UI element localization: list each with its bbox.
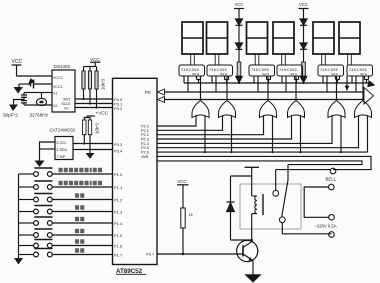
U1 left pin labels xyxy=(114,97,123,258)
svg-text:10k*2: 10k*2 xyxy=(95,122,100,134)
terminal bell upper xyxy=(326,168,337,181)
svg-text:P1.1: P1.1 xyxy=(114,185,123,190)
wire bell to mains series link xyxy=(304,187,328,217)
wire eeprom SCL to MCU P3.3 xyxy=(73,143,113,145)
svg-text:7 WP: 7 WP xyxy=(57,155,66,159)
microcontroller U1 AT89C52 xyxy=(113,78,158,275)
pushbutton S4 增加 xyxy=(19,206,113,214)
wire P3.5 line wrap to relay contact xyxy=(157,161,362,165)
terminal mains lower xyxy=(329,232,335,238)
svg-text:SEG: SEG xyxy=(290,72,298,76)
transistor Q1 NPN driver xyxy=(237,240,258,262)
svg-text:6 SCL: 6 SCL xyxy=(57,141,67,145)
svg-text:X1: X1 xyxy=(53,92,57,96)
label button 增加 xyxy=(75,205,84,209)
capacitor C1 load cap xyxy=(21,93,52,106)
svg-text:P0: P0 xyxy=(145,90,151,95)
wire driver U5 pin stubs xyxy=(282,76,299,92)
colon LED diode D4 xyxy=(300,43,307,62)
wire display DS4 pin stub xyxy=(282,54,286,65)
wire eeprom left pins to ground rail xyxy=(40,142,56,161)
svg-text:SEG: SEG xyxy=(220,72,228,76)
or-gate U8A digit select xyxy=(192,76,209,121)
wire DS1302 signal IO xyxy=(75,107,113,109)
svg-text:VCC: VCC xyxy=(12,59,23,65)
wire DS1302 signal RST xyxy=(75,98,113,100)
ground battery negative xyxy=(14,84,24,94)
svg-text:/RST: /RST xyxy=(63,98,71,102)
svg-text:I/O: I/O xyxy=(64,106,69,110)
svg-text:P1.4: P1.4 xyxy=(114,221,123,226)
display driver U2 74HC595 xyxy=(179,65,205,76)
svg-text:P3.4: P3.4 xyxy=(114,149,123,154)
VCC symbol relay coil supply xyxy=(245,167,260,196)
wire P2.0 digit select line xyxy=(157,121,196,127)
relay K1 contact common xyxy=(273,170,279,197)
resistor colon limiting R1 xyxy=(237,62,241,76)
or-gate U8C digit select xyxy=(260,76,277,121)
relay K1 coil xyxy=(252,194,263,240)
label button 暂停 xyxy=(75,239,84,243)
resistor R4 pull-up 10k xyxy=(88,67,91,105)
pushbutton S5 减小 xyxy=(19,217,113,225)
display driver U6 74HC595 xyxy=(318,65,344,76)
VCC symbol colon column 2 xyxy=(299,2,309,19)
terminal mains upper xyxy=(315,215,337,229)
VCC symbol base pull-up xyxy=(177,179,189,208)
RTC U9 DS1302 xyxy=(52,64,75,112)
label 10k*3 xyxy=(101,78,106,90)
wire chip6 stub arrow to bus xyxy=(345,76,350,91)
wire button common rail xyxy=(18,174,20,258)
svg-text:VCC1: VCC1 xyxy=(53,85,63,89)
ground crystal caps xyxy=(9,105,18,112)
wire driver U3 pin stubs xyxy=(212,76,229,92)
label button 闹钟设置/取消 xyxy=(59,181,103,185)
wire display DS5 pin stub xyxy=(322,54,326,65)
wire eeprom SDA to MCU P3.4 xyxy=(73,149,113,151)
display driver U3 74HC595 xyxy=(207,65,233,76)
svg-text:SEG: SEG xyxy=(360,72,368,76)
capacitor C2 load cap xyxy=(3,100,27,118)
wire P2.3 digit select line xyxy=(157,121,292,140)
svg-text:P1.0: P1.0 xyxy=(114,172,123,177)
svg-text:VCC2: VCC2 xyxy=(53,76,63,80)
seven-segment display DS5 xyxy=(313,22,334,54)
svg-text:SEG: SEG xyxy=(262,72,270,76)
resistor R6 I2C pull-up 10k xyxy=(83,120,86,145)
wire VCC to VCC2 pin xyxy=(17,75,53,77)
svg-text:P1.2: P1.2 xyxy=(114,198,123,203)
or-gate U8D digit select xyxy=(288,76,305,121)
crystal Y1 32768Hz xyxy=(30,93,53,118)
or-gate U8F digit select xyxy=(355,76,372,121)
label button 确定 xyxy=(75,248,84,252)
pushbutton S1 时间设置/确认 xyxy=(19,168,113,176)
pushbutton S2 闹钟设置/取消 xyxy=(19,181,113,189)
pushbutton S3 左移 xyxy=(19,194,113,202)
or-gate U8B digit select xyxy=(219,76,236,121)
resistor R8 base pull-up 1k xyxy=(181,208,194,255)
arrow to strobe rail from colon column 2 xyxy=(300,77,306,83)
label button 右移 xyxy=(75,229,84,233)
wire P2.5 digit select line xyxy=(157,121,359,148)
colon LED diode D1 xyxy=(236,19,243,43)
wire strobe rail xyxy=(184,81,374,87)
resistor R5 pull-up 10k xyxy=(95,67,98,109)
VCC symbol colon column 1 xyxy=(234,2,244,19)
wire display DS6 pin stub xyxy=(348,54,352,65)
svg-text:/WR: /WR xyxy=(141,155,149,159)
label button 减小 xyxy=(75,217,84,221)
wire driver U6 pin stubs xyxy=(323,76,340,92)
svg-text:P3.3: P3.3 xyxy=(114,142,123,147)
display driver U4 74HC595 xyxy=(249,65,275,76)
ground transistor emitter xyxy=(244,262,261,283)
seven-segment display DS2 xyxy=(207,22,228,54)
or-gate U8E digit select xyxy=(328,76,345,121)
svg-text:~220V 0.5A: ~220V 0.5A xyxy=(315,224,337,229)
battery B1 backup cell xyxy=(19,78,52,88)
svg-text:SEG: SEG xyxy=(331,72,339,76)
node P0 bus to displays xyxy=(158,88,374,105)
svg-text:P1.6: P1.6 xyxy=(114,244,123,249)
wire driver U7 pin stubs xyxy=(352,76,369,92)
svg-text:P1.3: P1.3 xyxy=(114,210,123,215)
display driver U7 74HC595 xyxy=(347,65,373,76)
svg-text:P3.7: P3.7 xyxy=(146,252,155,257)
wire MCU P3.7 to transistor base xyxy=(157,253,243,255)
wire P2.6 shared enable line xyxy=(157,121,368,154)
wire display DS3 pin stub xyxy=(255,54,259,65)
svg-text:DS1302: DS1302 xyxy=(54,64,71,69)
colon LED diode D2 xyxy=(236,43,243,62)
svg-text:VCC: VCC xyxy=(235,2,244,7)
wire P2.2 digit select line xyxy=(157,121,264,135)
colon LED diode D3 xyxy=(300,19,307,43)
svg-text:10k*3: 10k*3 xyxy=(101,78,106,90)
svg-text:P2.3: P2.3 xyxy=(141,138,149,142)
wire P2.1 digit select line xyxy=(157,121,223,131)
svg-text:SEG: SEG xyxy=(192,72,200,76)
VCC symbol pullup bank 1 xyxy=(84,57,101,67)
svg-text:VCC: VCC xyxy=(299,2,308,7)
svg-text:32768Hz: 32768Hz xyxy=(30,113,49,118)
arrow to strobe rail from colon column 1 xyxy=(236,77,242,83)
svg-text:CAT24WC02: CAT24WC02 xyxy=(50,128,76,133)
wire driver U2 pin stubs xyxy=(184,76,201,92)
U1 right pin labels xyxy=(141,125,155,257)
svg-text:VCC: VCC xyxy=(178,179,187,184)
wire display DS1 pin stub xyxy=(191,54,195,65)
relay K1 contact blade xyxy=(279,165,331,234)
svg-text:P3.2: P3.2 xyxy=(114,106,123,111)
resistor colon limiting R2 xyxy=(302,62,306,76)
seven-segment display DS6 xyxy=(339,22,360,54)
terminal bell lower xyxy=(329,184,335,190)
resistor R3 pull-up 10k xyxy=(82,67,85,101)
relay K1 outline xyxy=(240,184,301,229)
wire P2.4 digit select line xyxy=(157,121,332,144)
wire driver U4 pin stubs xyxy=(254,76,271,92)
diode D5 flyback xyxy=(227,176,253,241)
VCC symbol pullup bank 2 xyxy=(84,111,108,121)
seven-segment display DS1 xyxy=(182,22,203,54)
label 10k*2 xyxy=(95,122,100,134)
wire display DS2 pin stub xyxy=(215,54,219,65)
ground eeprom xyxy=(35,161,45,168)
pushbutton S7 暂停 xyxy=(19,240,113,248)
eeprom U10 CAT24WC02 xyxy=(50,128,76,160)
svg-text:5 SDA: 5 SDA xyxy=(57,148,68,152)
wire bell feed line xyxy=(276,169,331,171)
svg-text:VCC: VCC xyxy=(90,57,100,62)
svg-text:P2.5: P2.5 xyxy=(141,146,149,150)
VCC symbol DS1302 supply xyxy=(12,59,23,76)
wire caps common to ground xyxy=(14,100,25,105)
wire DS1302 signal SCLK xyxy=(75,103,113,105)
seven-segment display DS4 xyxy=(273,22,294,54)
svg-text:30pF*2: 30pF*2 xyxy=(3,113,18,118)
label button 左移 xyxy=(75,193,84,197)
svg-text:P1.5: P1.5 xyxy=(114,233,123,238)
seven-segment display DS3 xyxy=(247,22,268,54)
svg-text:X2: X2 xyxy=(53,104,57,108)
resistor R7 I2C pull-up 10k xyxy=(88,120,91,151)
pushbutton S6 右移 xyxy=(19,229,113,237)
svg-text:BELL: BELL xyxy=(326,177,337,182)
ground button rail xyxy=(14,258,23,265)
label button 时间设置/确认 xyxy=(59,168,103,172)
svg-text:P1.7: P1.7 xyxy=(114,253,123,258)
display driver U5 74HC595 xyxy=(277,65,303,76)
svg-text:P2.1: P2.1 xyxy=(141,129,149,133)
pushbutton S8 确定 xyxy=(19,249,113,257)
ground eeprom WP xyxy=(86,148,95,158)
svg-text:+VCC: +VCC xyxy=(96,111,109,116)
wire P2.7 line wrap to bell feed xyxy=(157,156,371,169)
